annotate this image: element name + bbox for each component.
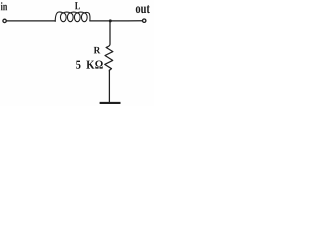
label L: [75, 2, 80, 9]
wire resistor to ground: [108, 70, 110, 102]
ground: [100, 102, 121, 104]
label out: [136, 5, 150, 13]
label 5 KΩ value: [76, 61, 80, 69]
inductor loop 1: [60, 13, 66, 22]
node in terminal: [3, 19, 6, 22]
label R: [94, 47, 101, 54]
junction node: [109, 19, 112, 22]
inductor loop 4: [81, 13, 87, 22]
inductor L coil top: [55, 12, 90, 21]
wire in to inductor: [6, 20, 55, 22]
wire junction down to resistor: [106, 21, 110, 48]
resistor R zigzag: [105, 48, 113, 72]
inductor loop 2: [67, 13, 73, 22]
label in: [1, 2, 7, 10]
wire inductor to out: [90, 20, 142, 22]
node out terminal: [143, 19, 146, 22]
inductor loop 3: [74, 13, 80, 22]
